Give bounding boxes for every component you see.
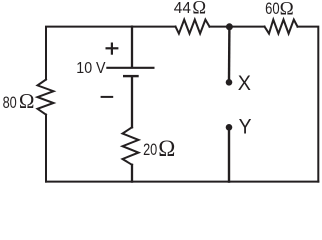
svg-text:60: 60 <box>265 1 280 19</box>
svg-text:Ω: Ω <box>280 0 294 20</box>
junction node dot <box>226 23 233 30</box>
wire: top side (44-ohm to 60-ohm through node) <box>210 26 265 28</box>
label: 80 ohm value <box>3 89 35 113</box>
label: 60 ohm value <box>265 0 294 20</box>
plus sign of battery <box>107 44 118 54</box>
svg-text:20: 20 <box>143 140 157 159</box>
wire: battery to 20-ohm <box>131 77 133 127</box>
battery B1 short plate (negative) <box>124 75 137 77</box>
svg-text:44: 44 <box>174 0 191 17</box>
label: 20 ohm value <box>143 136 175 161</box>
wire: 20-ohm to bottom <box>131 165 133 182</box>
label: 10 V battery value <box>76 59 105 77</box>
svg-text:Ω: Ω <box>192 0 206 19</box>
wire: terminal Y to bottom <box>228 129 230 182</box>
wire: top side (left corner to 44-ohm) <box>46 27 176 80</box>
svg-text:Y: Y <box>239 114 252 138</box>
svg-text:10 V: 10 V <box>76 59 105 77</box>
wire: left side (below 80-ohm) <box>45 115 47 182</box>
battery B1 long plate (positive) <box>107 67 153 69</box>
terminal X dot <box>226 79 233 86</box>
svg-text:Ω: Ω <box>19 89 35 113</box>
svg-text:X: X <box>238 71 251 95</box>
terminal Y dot <box>226 124 233 131</box>
wire: bottom side <box>46 181 318 183</box>
resistor R4 20 ohm <box>123 127 139 165</box>
label: terminal Y <box>239 114 252 138</box>
svg-text:Ω: Ω <box>158 136 175 161</box>
wire: battery branch top <box>131 27 133 67</box>
minus sign of battery <box>102 96 113 98</box>
wire: right side <box>298 27 319 182</box>
svg-text:80: 80 <box>3 93 17 112</box>
resistor R3 80 ohm <box>38 80 54 115</box>
resistor R1 44 ohm <box>176 20 210 34</box>
resistor R2 60 ohm <box>265 20 298 34</box>
label: 44 ohm value <box>174 0 206 19</box>
label: terminal X <box>238 71 251 95</box>
wire: node to terminal X <box>228 27 231 80</box>
